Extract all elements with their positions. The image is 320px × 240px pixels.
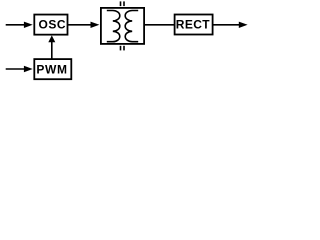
- core tick top: [120, 1, 122, 6]
- transformer T1: [101, 1, 144, 50]
- wire input to OSC: [6, 24, 27, 26]
- arrowhead into OSC: [24, 22, 33, 28]
- block PWM: [34, 59, 71, 79]
- wire OSC to transformer: [68, 24, 94, 26]
- core tick bottom: [120, 46, 122, 51]
- block OSC: [34, 15, 67, 35]
- arrowhead output: [239, 22, 248, 28]
- svg-text:OSC: OSC: [39, 17, 67, 31]
- arrowhead into OSC bottom: [48, 35, 55, 42]
- secondary winding: [125, 11, 138, 42]
- arrowhead into transformer: [91, 22, 100, 28]
- wire RECT output: [213, 24, 241, 26]
- block RECT: [175, 15, 213, 35]
- svg-text:PWM: PWM: [36, 62, 67, 76]
- svg-text:RECT: RECT: [176, 18, 211, 32]
- wire input to PWM: [6, 68, 27, 70]
- arrowhead into PWM: [24, 66, 33, 72]
- wire PWM to OSC: [51, 41, 53, 59]
- transformer box: [101, 8, 144, 44]
- primary winding: [107, 11, 120, 42]
- wire transformer to RECT: [145, 24, 176, 26]
